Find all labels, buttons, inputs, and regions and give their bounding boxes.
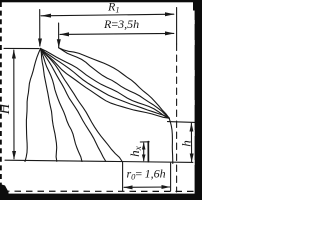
jet curve A6 [41, 49, 170, 119]
dimension line hx [143, 143, 145, 161]
arrowhead R1 left [41, 14, 51, 18]
arrowhead hx down [142, 155, 146, 162]
arrowhead H up [12, 50, 16, 59]
h reference line [168, 121, 196, 124]
dimension line H [13, 50, 15, 159]
arrowhead h up [190, 123, 194, 132]
extension line v1 [39, 10, 41, 47]
jet curve A1 [25, 49, 41, 162]
jet curve A3 [41, 49, 83, 162]
svg-text:R=3,5h: R=3,5h [103, 17, 139, 31]
falling jet vertical [169, 118, 173, 164]
arrowhead hx up [142, 142, 146, 149]
dimension line R [60, 33, 174, 34]
r0 extension left [122, 163, 124, 192]
jet curve A7 [41, 49, 170, 119]
arrowhead R left [60, 32, 70, 36]
arrowhead v2 down [57, 39, 61, 48]
r0 extension right [170, 163, 172, 191]
svg-text:h: h [179, 140, 194, 147]
dimension line h [190, 123, 192, 161]
svg-text:H: H [0, 102, 13, 115]
jet curve B1 [59, 48, 170, 119]
extension line v2 [58, 23, 60, 47]
dimension line r0 [124, 186, 170, 188]
arrowhead r0 left [123, 185, 132, 189]
jet curve A4 [41, 49, 106, 162]
hx edge line [147, 142, 149, 162]
arrowhead h down [190, 154, 194, 163]
jet curve A2 [41, 49, 57, 162]
hx top tick [140, 141, 149, 143]
arrowhead R1 right [165, 12, 175, 16]
arrowhead H down [12, 151, 16, 160]
ground line [5, 160, 195, 162]
arrowhead v1 down [38, 39, 42, 48]
jet curve A5 [41, 49, 123, 163]
arrowhead R right [165, 31, 175, 35]
dimension line R1 [41, 14, 174, 16]
arrowhead r0 right [162, 185, 171, 189]
H reference line [4, 47, 39, 49]
jet curve B2 [59, 48, 170, 119]
jet curve A8 [41, 49, 170, 119]
datum chain line [176, 8, 178, 45]
